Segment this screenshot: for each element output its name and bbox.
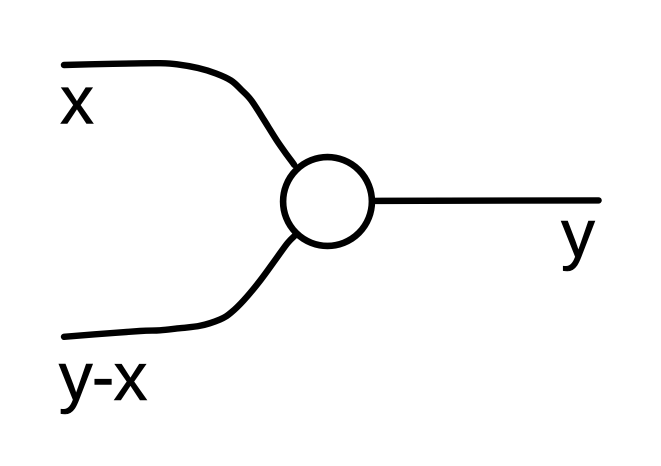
svg-text:y: y bbox=[561, 196, 595, 272]
svg-text:y-x: y-x bbox=[59, 339, 148, 415]
svg-text:x: x bbox=[60, 63, 94, 139]
